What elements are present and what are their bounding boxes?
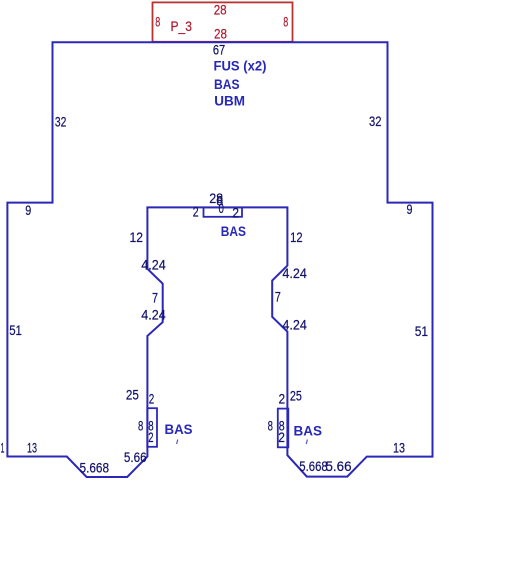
svg-text:4.24: 4.24 — [141, 258, 166, 273]
svg-text:7: 7 — [152, 291, 158, 306]
svg-text:8: 8 — [138, 419, 143, 434]
svg-text:5.66: 5.66 — [326, 459, 352, 474]
svg-text:28: 28 — [214, 3, 227, 18]
svg-text:2: 2 — [278, 430, 285, 445]
svg-text:2: 2 — [149, 391, 155, 406]
svg-text:9: 9 — [25, 203, 31, 218]
svg-text:BAS: BAS — [294, 423, 323, 439]
svg-text:32: 32 — [55, 115, 67, 130]
svg-text:12: 12 — [130, 230, 144, 245]
svg-text:32: 32 — [369, 114, 382, 129]
svg-text:5.668: 5.668 — [299, 459, 327, 474]
slot BAS top-center rectangle — [204, 207, 243, 216]
svg-text:8: 8 — [268, 419, 273, 434]
svg-text:BAS: BAS — [221, 223, 246, 239]
svg-text:BAS: BAS — [165, 421, 193, 437]
slot BAS lower-right rectangle — [278, 409, 289, 448]
svg-text:4.24: 4.24 — [282, 318, 307, 333]
svg-text:12: 12 — [290, 230, 303, 245]
tick mark right slot — [306, 440, 307, 445]
svg-text:FUS (x2): FUS (x2) — [214, 58, 267, 74]
svg-text:UBM: UBM — [214, 92, 245, 108]
tick mark left slot — [177, 440, 178, 445]
svg-text:7: 7 — [275, 290, 281, 305]
svg-text:2: 2 — [232, 205, 239, 220]
svg-text:BAS: BAS — [214, 76, 240, 92]
svg-text:25: 25 — [126, 388, 139, 403]
svg-text:1: 1 — [1, 441, 5, 456]
slot BAS lower-left rectangle — [147, 408, 157, 447]
svg-text:9: 9 — [407, 202, 413, 217]
svg-text:P_3: P_3 — [171, 19, 193, 34]
part outline polygon — [7, 42, 432, 477]
svg-text:4.24: 4.24 — [141, 308, 166, 323]
svg-text:8: 8 — [283, 14, 288, 29]
svg-text:5.668: 5.668 — [80, 461, 110, 476]
svg-text:67: 67 — [213, 42, 225, 57]
svg-text:51: 51 — [415, 324, 428, 339]
svg-text:28: 28 — [214, 26, 227, 41]
svg-text:2: 2 — [148, 430, 153, 445]
svg-text:4.24: 4.24 — [282, 266, 307, 281]
svg-text:0: 0 — [219, 201, 224, 216]
svg-text:5.66: 5.66 — [124, 450, 147, 465]
svg-text:25: 25 — [290, 389, 302, 404]
component P_3 red rectangle — [153, 2, 293, 41]
svg-text:13: 13 — [393, 440, 405, 455]
svg-text:13: 13 — [27, 441, 37, 456]
svg-text:51: 51 — [9, 323, 22, 338]
svg-text:8: 8 — [155, 14, 160, 29]
svg-text:2: 2 — [279, 391, 286, 406]
svg-text:2: 2 — [193, 205, 199, 220]
